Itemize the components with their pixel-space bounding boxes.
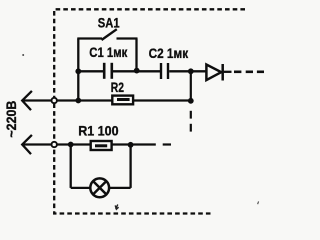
capacitor C2 plates [161,63,168,79]
wire: between C1 and C2 [113,70,160,72]
svg-text:C1 1мк: C1 1мк [89,44,128,60]
tiny arrow artifact below lamp [115,205,118,210]
wire: lamp branch right vertical [129,145,131,188]
arrow head, top input [22,91,32,110]
resistor R2 [112,96,133,105]
capacitor C1 plates [104,63,112,79]
svg-text:SA1: SA1 [98,15,120,31]
wire: top feed line from arrow to R2 and on to right node [22,99,191,101]
svg-text:R1 100: R1 100 [78,123,119,139]
junction at lamp branch right [128,142,134,148]
wire: left vertical riser from top line to SA1/C1 block [77,39,79,101]
wire: C1 left lead [78,70,103,72]
dashed enclosure border (left, top, bottom) [54,9,245,213]
switch SA1 blade [102,29,117,40]
junction at lamp branch left [68,142,74,148]
svg-text:R2: R2 [111,79,124,95]
wire: lamp branch bottom right lead [109,187,131,189]
lamp HL1 [90,178,109,197]
svg-text:C2 1мк: C2 1мк [149,45,189,61]
wire: right vertical of switch branch down to C1 line [135,39,137,72]
diode VD1 [206,64,222,81]
wire: from C2 to diode anode [169,70,206,72]
junction at right node on top line [188,98,194,104]
junction at C1 left node [75,68,81,74]
wire: switch branch left lead [77,37,102,39]
terminal circle, top input [52,98,57,103]
wire: lamp branch bottom left lead [71,187,91,189]
junction at riser / top line [75,98,81,104]
speck artifact upper left [22,54,24,56]
junction at C2 / diode node [188,68,194,74]
wire: right vertical between C2 node and top line node [190,71,192,100]
wire: diode cathode stub [224,71,232,73]
wire: switch branch right lead [117,37,138,39]
resistor R1 [91,141,112,150]
svg-text:~220В: ~220В [3,101,19,138]
wire: dash continuation of bottom line [163,143,171,145]
wire: dashed continuation below right node [190,111,192,132]
terminal circle, bottom input [52,142,57,147]
junction at C1 right node [134,68,140,74]
comma artifact bottom right [258,201,259,204]
arrow head, bottom input [22,135,32,154]
wire: lamp branch left vertical [70,145,72,188]
wire: bottom feed line from arrow through R1 [22,143,156,145]
wire: dashed continuation to the right of diode [234,71,264,74]
